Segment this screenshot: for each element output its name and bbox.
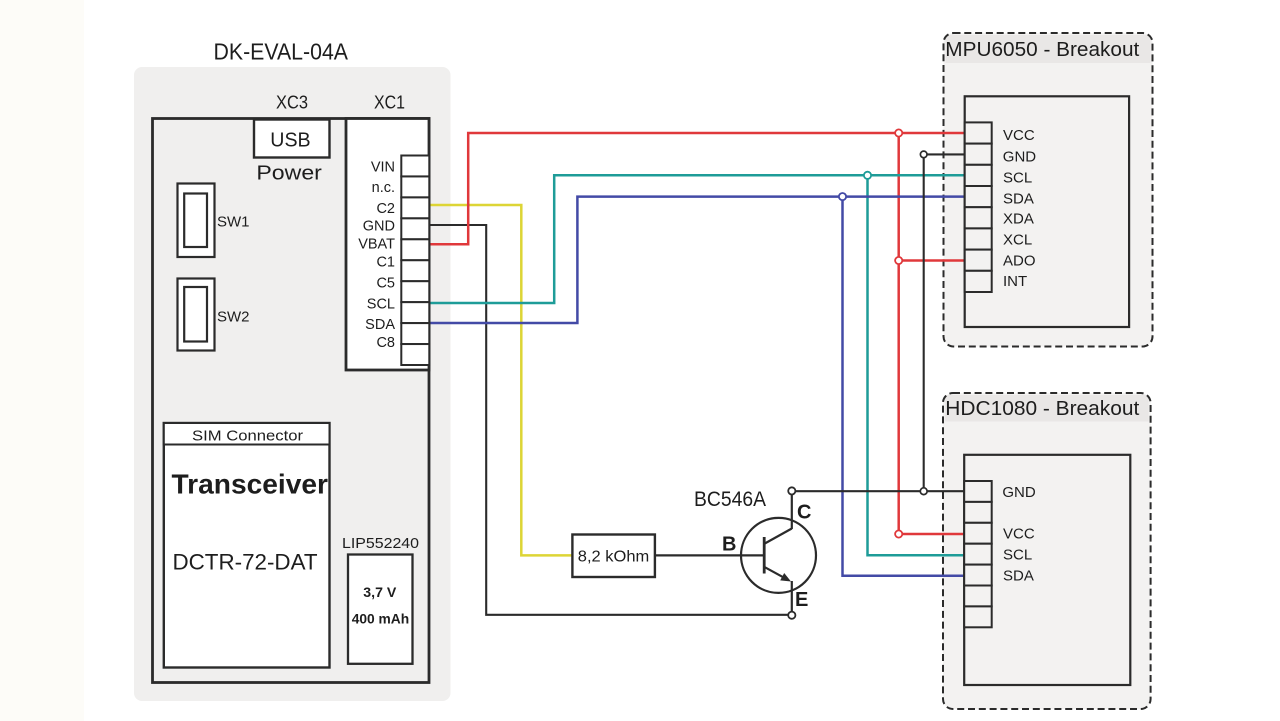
switch SW2 [178, 279, 250, 351]
terminal collector [788, 487, 795, 494]
svg-text:XC1: XC1 [374, 92, 405, 113]
svg-text:Transceiver: Transceiver [172, 469, 329, 500]
board inner outline [153, 119, 430, 683]
svg-text:3,7 V: 3,7 V [363, 584, 397, 600]
switch SW1 [178, 184, 250, 258]
svg-text:GND: GND [1003, 148, 1037, 165]
HDC inner box [964, 455, 1130, 685]
svg-text:C5: C5 [376, 276, 395, 292]
svg-text:VBAT: VBAT [358, 237, 395, 253]
XC1 pin boxes [401, 156, 429, 366]
svg-text:SCL: SCL [367, 297, 395, 313]
svg-text:E: E [795, 589, 808, 611]
svg-text:n.c.: n.c. [372, 180, 395, 196]
svg-text:SDA: SDA [1003, 568, 1034, 585]
wire teal SCL to MPU SCL [430, 175, 967, 303]
svg-text:INT: INT [1003, 273, 1027, 290]
junction black collector [920, 488, 927, 495]
svg-text:XDA: XDA [1003, 211, 1034, 228]
wire black vertical branch [923, 154, 925, 491]
wire blue SDA to MPU SDA [430, 197, 967, 323]
XC1 pin labels [358, 160, 395, 351]
svg-text:MPU6050 - Breakout: MPU6050 - Breakout [945, 39, 1139, 61]
emitter lead vertical [791, 581, 793, 612]
wire red VBAT to MPU VCC [430, 133, 967, 244]
svg-text:VCC: VCC [1003, 526, 1035, 543]
wire red vertical branch [897, 133, 900, 534]
svg-text:VIN: VIN [371, 160, 395, 176]
transistor body circle [741, 518, 816, 593]
svg-text:SCL: SCL [1003, 170, 1032, 187]
svg-text:DK-EVAL-04A: DK-EVAL-04A [214, 39, 349, 65]
HDC pin labels [1002, 484, 1036, 585]
svg-text:GND: GND [1002, 484, 1036, 501]
svg-text:C1: C1 [376, 255, 395, 271]
junction blue [839, 193, 846, 200]
svg-text:C8: C8 [376, 335, 395, 351]
svg-text:USB: USB [270, 130, 310, 152]
module HDC1080 breakout [943, 393, 1151, 709]
svg-text:ADO: ADO [1003, 253, 1036, 270]
HDC pin boxes [964, 481, 992, 627]
base bar [763, 537, 766, 574]
MPU pin labels [1003, 127, 1037, 290]
connector XC1 body [346, 119, 429, 371]
collector lead diagonal [765, 529, 792, 544]
wire red to MPU ADO [899, 259, 967, 262]
wire red to HDC VCC [899, 533, 966, 536]
svg-text:SDA: SDA [365, 317, 395, 333]
svg-text:8,2 kOhm: 8,2 kOhm [578, 549, 650, 566]
svg-text:SDA: SDA [1003, 190, 1034, 207]
wire blue vertical branch to HDC SDA [843, 197, 966, 576]
SIM Connector band [164, 423, 330, 445]
module MPU6050 breakout [944, 33, 1153, 347]
junction black MPU GND [920, 151, 927, 158]
svg-text:SIM Connector: SIM Connector [192, 428, 303, 445]
junction red top [895, 129, 902, 136]
svg-text:VCC: VCC [1003, 127, 1035, 144]
wire teal vertical branch to HDC SCL [868, 175, 966, 555]
svg-text:SW1: SW1 [217, 214, 250, 231]
svg-text:XCL: XCL [1003, 231, 1032, 248]
wire yellow C2 to resistor [430, 205, 573, 555]
svg-text:XC3: XC3 [276, 92, 308, 113]
junction teal [864, 172, 871, 179]
svg-text:SW2: SW2 [217, 309, 250, 326]
svg-text:GND: GND [363, 219, 395, 235]
svg-text:C: C [797, 502, 811, 524]
svg-text:HDC1080 - Breakout: HDC1080 - Breakout [945, 398, 1139, 420]
emitter lead diagonal [765, 567, 787, 579]
wire black GND to emitter [430, 225, 789, 615]
wire black collector to HDC GND [796, 490, 966, 492]
svg-text:LIP552240: LIP552240 [342, 535, 419, 552]
module Transceiver box [164, 423, 330, 668]
terminal emitter [788, 612, 795, 619]
connector USB (XC3) [254, 120, 330, 158]
junction red HDC VCC [895, 530, 902, 537]
collector lead vertical [791, 494, 793, 529]
transistor Q1 BC546A [655, 494, 816, 612]
svg-text:BC546A: BC546A [694, 488, 766, 511]
svg-text:Power: Power [256, 162, 322, 184]
resistor 8,2 kOhm [572, 535, 655, 578]
svg-text:400 mAh: 400 mAh [352, 611, 410, 627]
svg-text:C2: C2 [376, 201, 395, 217]
MPU pin boxes [965, 122, 992, 292]
emitter arrowhead [780, 573, 791, 582]
wire black to MPU GND [924, 153, 967, 155]
svg-text:B: B [722, 534, 736, 556]
svg-text:SCL: SCL [1003, 547, 1032, 564]
junction red ADO [895, 257, 902, 264]
svg-text:DCTR-72-DAT: DCTR-72-DAT [173, 550, 318, 575]
board DK-EVAL-04A outline [134, 67, 451, 701]
wire base lead from resistor [655, 554, 764, 556]
MPU inner box [965, 96, 1129, 327]
